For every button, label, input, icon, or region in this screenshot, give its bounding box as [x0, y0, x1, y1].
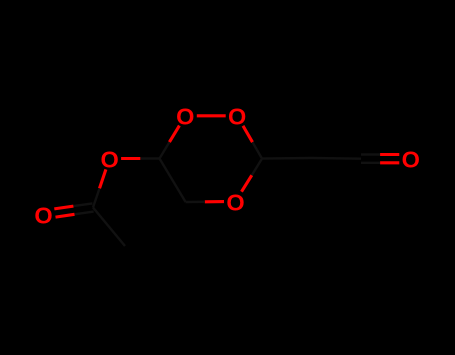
- svg-text:O: O: [34, 202, 52, 228]
- svg-text:O: O: [226, 189, 244, 215]
- double bond C7=O5 carbonyl: [54, 203, 93, 217]
- svg-text:O: O: [402, 147, 420, 173]
- svg-text:O: O: [176, 104, 194, 130]
- bond O4-C3: [242, 159, 263, 192]
- double bond C12=O6 aldehyde: [361, 155, 399, 163]
- bond C11-C12 chain: [312, 157, 362, 160]
- bond C5-C6: [160, 159, 186, 203]
- svg-text:O: O: [228, 104, 246, 130]
- bond Oester-C7: [93, 169, 106, 207]
- bond C6-Oester: [121, 157, 159, 159]
- bond O2-C3: [243, 126, 262, 159]
- bond O1-C6: [160, 126, 180, 159]
- bond O4-C5: [186, 200, 224, 203]
- svg-text:O: O: [100, 146, 118, 172]
- bond C7-C8 methyl: [93, 208, 125, 247]
- bond C3-C11 chain: [262, 157, 312, 160]
- bond O1-O2 peroxide: [197, 114, 226, 117]
